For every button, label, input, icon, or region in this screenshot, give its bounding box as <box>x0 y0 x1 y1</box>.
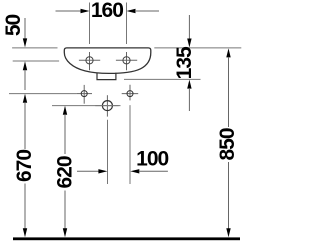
drain tab under basin <box>97 73 116 80</box>
washbasin outline <box>64 48 151 74</box>
wire: 160 right arrowhead <box>127 9 136 13</box>
faucet hole cross left (x89,y60.3) <box>79 52 100 70</box>
wire: faucet level line left (y=61) <box>13 60 59 62</box>
svg-text:50: 50 <box>2 15 25 37</box>
100 dim left arrow (right-pointing) <box>77 170 99 172</box>
svg-text:100: 100 <box>136 147 168 170</box>
100 dim right arrow (left-pointing) <box>130 169 139 173</box>
svg-text:620: 620 <box>54 156 77 188</box>
wire: rim extension line right of basin (y=47.9) <box>154 47 241 49</box>
135 dim lower arrow (up) <box>187 80 191 89</box>
wire: line A drill level left (y=93.6) <box>9 93 76 95</box>
wire: right extension line through faucet hole x=126.5 <box>126 3 128 45</box>
670 dim vertical x=25 <box>23 94 27 103</box>
850 dim vertical x=228.5 <box>226 48 230 57</box>
drill hole left (84.2,93.6) <box>76 85 92 104</box>
620 dim vertical x=65 <box>63 106 67 115</box>
wire: 160 left arrowhead <box>81 9 90 13</box>
svg-text:135: 135 <box>173 46 196 79</box>
50 dim upper arrow (down) <box>24 18 26 39</box>
wire: 160 dim line right shaft <box>135 10 159 12</box>
svg-text:160: 160 <box>91 0 123 22</box>
wire: tab bottom extension right (y=79.4) <box>124 78 201 80</box>
floor line <box>13 237 240 240</box>
wire: line B drain level (y=105.6) <box>52 105 121 107</box>
svg-text:850: 850 <box>216 128 239 160</box>
wire: rim extension line left of basin (y=47.9) <box>12 47 57 49</box>
drill hole right (130,93.6) <box>122 85 139 101</box>
100 dim extension verticals <box>107 120 109 184</box>
50 dim lower arrow (up) <box>23 61 27 70</box>
faucet hole cross right (x126.5,y60.3) <box>116 52 137 70</box>
svg-text:670: 670 <box>13 150 36 182</box>
wire: left extension line through faucet hole x=89 <box>89 3 91 45</box>
135 dim upper arrow (down) <box>188 15 190 39</box>
drain hole center (107.4,105.6) <box>95 95 118 116</box>
wire: 160 dim line left shaft <box>56 10 82 12</box>
